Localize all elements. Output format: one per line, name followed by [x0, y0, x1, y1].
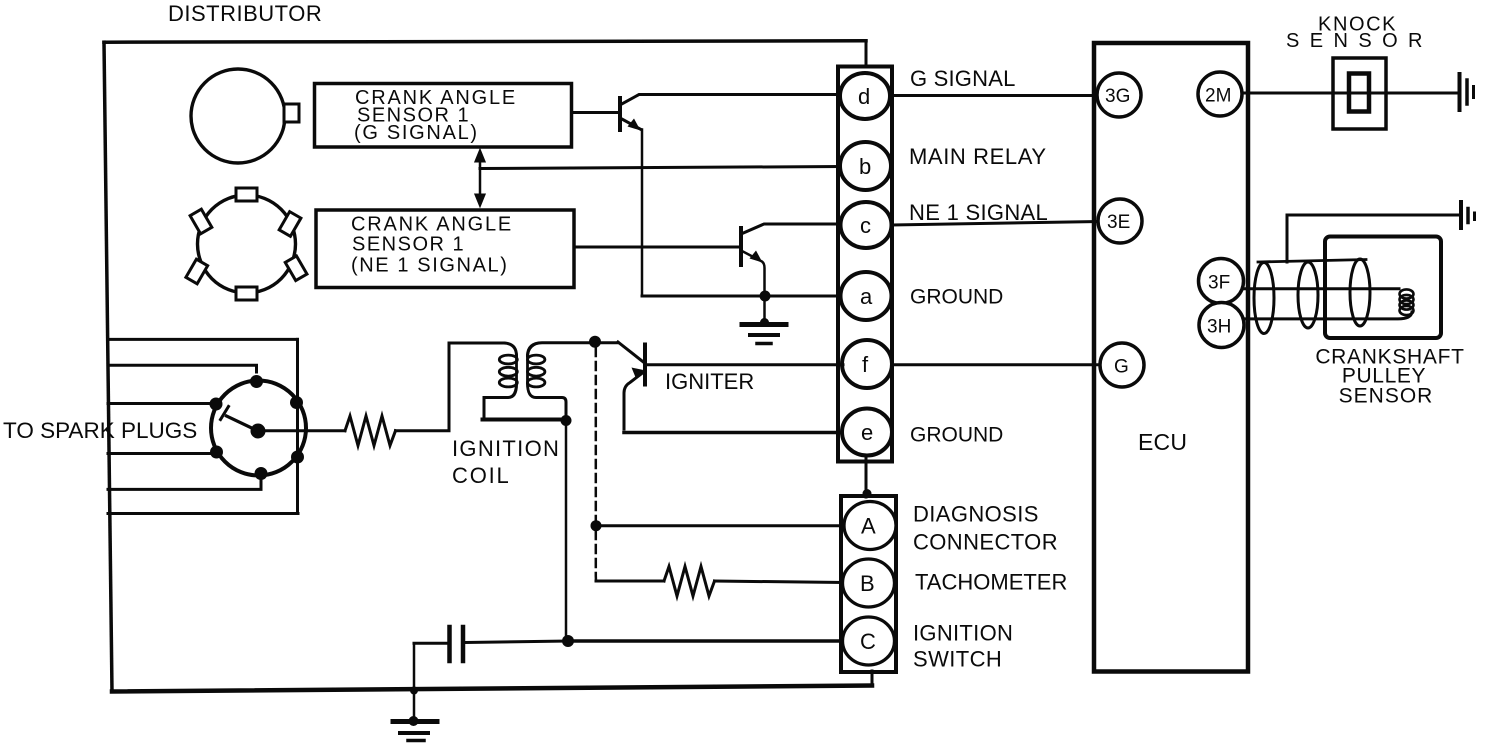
wire tachometer row left segment — [596, 580, 664, 583]
pin b — [840, 142, 891, 190]
ignition coil primary top lead — [504, 343, 517, 356]
pin d — [840, 73, 890, 119]
rotor arm tick — [221, 407, 229, 420]
svg-text:TACHOMETER: TACHOMETER — [915, 570, 1067, 595]
wire ignition coil junction down — [565, 421, 568, 642]
ground G3 (knock) — [1458, 74, 1462, 110]
ground G2 — [393, 719, 437, 724]
ECU pin G — [1100, 343, 1144, 387]
wire pin f to ECU G — [892, 363, 1100, 366]
ECU pin 3E — [1098, 199, 1142, 243]
svg-text:IGNITION: IGNITION — [452, 436, 560, 461]
ECU pin 2M — [1198, 72, 1242, 116]
wire top edge to connector d — [865, 41, 868, 67]
pin e — [842, 409, 892, 456]
svg-text:SWITCH: SWITCH — [913, 647, 1002, 672]
transistor Q2 base wire from NE sensor — [575, 246, 741, 249]
svg-text:CONNECTOR: CONNECTOR — [913, 530, 1058, 555]
wire ignition switch row to pin C — [568, 639, 843, 643]
pickup coil G tab — [284, 104, 299, 122]
wire resistor to pin B — [715, 581, 844, 583]
svg-text:DIAGNOSIS: DIAGNOSIS — [913, 502, 1039, 527]
wire Q1 emitter down — [641, 130, 644, 297]
wire pin d to ECU 3G — [892, 94, 1097, 97]
svg-text:(G SIGNAL): (G SIGNAL) — [354, 122, 479, 144]
svg-text:2M: 2M — [1205, 86, 1231, 107]
transistor Q1 emitter arrow — [628, 119, 641, 131]
svg-text:d: d — [858, 84, 870, 109]
ignition coil primary bottom lead — [484, 384, 517, 418]
svg-text:3G: 3G — [1105, 86, 1130, 107]
svg-text:G SIGNAL: G SIGNAL — [910, 66, 1016, 91]
cap contact dot upper-right — [290, 396, 303, 409]
ground G2 dot — [409, 716, 419, 726]
connector 2 box — [841, 496, 896, 672]
svg-text:A: A — [861, 514, 876, 539]
junction dot igniter base — [589, 336, 601, 348]
svg-text:SENSOR: SENSOR — [1286, 30, 1433, 52]
wire pin c to ECU 3E — [892, 222, 1098, 226]
ignition coil secondary bottom lead — [528, 384, 567, 421]
cap contact dot lower-left — [210, 446, 223, 459]
igniter transistor Q3 emitter — [624, 371, 645, 429]
pin C — [843, 617, 895, 665]
capacitor C1 plates — [447, 627, 452, 661]
spark plug wire 2 — [108, 365, 257, 372]
junction dot diagnosis row — [591, 520, 602, 531]
NE rotor tooth upper-left — [190, 209, 212, 234]
pin B — [843, 559, 895, 607]
svg-text:ECU: ECU — [1138, 429, 1187, 455]
cap contact dot lower-right — [291, 451, 304, 464]
spark plug wire 6 — [108, 512, 298, 515]
capacitor C1 right wire — [466, 641, 569, 643]
svg-text:GROUND: GROUND — [910, 424, 1003, 447]
pickup coil G circle — [191, 69, 285, 163]
ignition coil secondary winding — [526, 355, 529, 383]
svg-text:IGNITION: IGNITION — [913, 621, 1013, 646]
pin A — [844, 502, 896, 550]
igniter transistor Q3 emitter arrow — [632, 368, 644, 379]
transistor Q2 emitter arrow — [750, 251, 763, 263]
NE rotor tooth lower-right — [285, 256, 307, 281]
ground G1 dot — [760, 318, 769, 327]
cap contact dot upper-left — [210, 398, 223, 411]
ECU pin 3H — [1199, 303, 1244, 348]
pin c — [841, 202, 892, 248]
wire crank sensor shield to ground — [1287, 215, 1459, 262]
shield loop 3 — [1350, 259, 1370, 326]
NE rotor tooth bottom — [236, 287, 257, 300]
wire main relay row to pin b — [480, 167, 842, 169]
svg-text:c: c — [860, 213, 871, 238]
distributor enclosure top edge — [104, 41, 866, 42]
resistor R1 (rotor gap) — [345, 416, 396, 446]
sensor pickup coil — [1400, 289, 1414, 298]
NE rotor tooth top — [236, 188, 257, 201]
svg-text:CRANK ANGLE: CRANK ANGLE — [351, 214, 513, 236]
wire rotor to resistor — [264, 429, 345, 432]
wire igniter collector to pin f — [645, 363, 843, 366]
transistor Q1 base wire from G sensor — [574, 111, 620, 114]
svg-text:SENSOR 1: SENSOR 1 — [352, 234, 465, 256]
svg-text:a: a — [860, 284, 873, 309]
wire 2M to knock sensor — [1242, 92, 1458, 95]
svg-text:e: e — [861, 420, 873, 445]
wire resistor to ignition coil — [396, 343, 505, 431]
double-headed arrow between sensor boxes — [479, 158, 482, 198]
ECU box — [1094, 43, 1248, 672]
spark plug bus vertical — [296, 339, 299, 513]
NE signal rotor circle — [198, 195, 296, 293]
cap contact dot bottom — [255, 467, 268, 480]
transistor Q2 collector to pin c wire — [741, 224, 841, 234]
igniter transistor Q3 base bar — [643, 345, 647, 385]
spark plug wire 4 — [108, 452, 216, 455]
svg-text:DISTRIBUTOR: DISTRIBUTOR — [168, 1, 322, 26]
shielded cable tube top — [1258, 260, 1366, 263]
wire capacitor to ground — [413, 643, 416, 719]
transistor Q2 base bar — [739, 228, 743, 265]
shield loop 2 — [1298, 262, 1318, 328]
svg-text:b: b — [859, 154, 871, 179]
transistor Q1 collector to pin d wire — [620, 95, 842, 106]
svg-text:IGNITER: IGNITER — [665, 369, 754, 394]
resistor R2 (tachometer) — [664, 567, 715, 597]
svg-text:f: f — [862, 352, 869, 377]
crank angle sensor 1 (G) box — [315, 84, 572, 148]
svg-text:B: B — [860, 571, 875, 596]
svg-text:SENSOR: SENSOR — [1339, 385, 1434, 408]
svg-text:MAIN RELAY: MAIN RELAY — [909, 144, 1047, 169]
pin a — [841, 272, 892, 320]
capacitor C1 left wire — [414, 642, 446, 645]
wire pin e to connector 2 — [865, 455, 868, 497]
wire to ground G1 — [763, 296, 766, 322]
ground G4 (crank shield) — [1459, 202, 1463, 228]
svg-text:COIL: COIL — [452, 463, 511, 488]
wire diagnosis row to pin A — [596, 524, 844, 527]
svg-text:TO SPARK PLUGS: TO SPARK PLUGS — [3, 418, 197, 443]
ECU pin 3F — [1199, 259, 1244, 304]
transistor Q2 emitter — [741, 251, 765, 297]
distributor enclosure left edge — [104, 42, 112, 691]
spark plug wire 1 — [108, 338, 298, 341]
wire bottom edge to connector C — [871, 671, 874, 686]
junction dot ignition switch row — [562, 635, 574, 647]
connector 1 box — [838, 67, 892, 462]
knock sensor element — [1349, 74, 1369, 112]
junction dot at enclosure bottom — [410, 687, 418, 695]
svg-text:G: G — [1114, 357, 1129, 378]
pin f — [842, 340, 892, 388]
svg-text:3E: 3E — [1107, 212, 1130, 233]
ignition coil secondary top lead — [528, 343, 619, 356]
igniter transistor Q3 collector diagonal — [618, 342, 644, 363]
cap contact dot top — [250, 375, 263, 388]
svg-text:C: C — [860, 629, 876, 654]
shield loop 1 — [1254, 263, 1274, 334]
crank angle sensor 1 (NE) box — [316, 210, 574, 288]
svg-text:(NE 1 SIGNAL): (NE 1 SIGNAL) — [351, 255, 509, 277]
svg-text:GROUND: GROUND — [910, 286, 1003, 309]
wire ECU 3H to sensor coil — [1244, 312, 1412, 319]
ignition coil primary winding — [515, 355, 518, 383]
junction dot a row — [760, 291, 771, 302]
NE rotor tooth lower-left — [186, 259, 208, 284]
distributor enclosure bottom edge — [112, 686, 872, 692]
dashed wire from igniter base junction down — [595, 348, 598, 520]
junction dot coil bottom — [561, 415, 572, 426]
crankshaft pulley sensor box — [1325, 237, 1441, 339]
ECU pin 3G — [1097, 73, 1141, 117]
junction dot connector 2 top — [863, 489, 872, 498]
distributor cap circle — [211, 381, 306, 476]
spark plug wire 3 — [108, 402, 216, 405]
spark plug wire 5 — [108, 480, 261, 489]
NE rotor tooth upper-right — [279, 212, 301, 237]
wire ECU 3F to sensor coil — [1243, 287, 1399, 290]
rotor center dot — [251, 424, 266, 439]
wire igniter emitter to pin e — [624, 431, 842, 435]
transistor Q1 base bar — [618, 98, 622, 130]
wire ground row to pin a — [642, 295, 842, 298]
svg-text:3F: 3F — [1208, 273, 1230, 294]
knock sensor outer box — [1333, 58, 1386, 129]
rotor arm — [227, 416, 259, 431]
dashed wire to tachometer row — [595, 531, 598, 581]
transistor Q1 emitter — [620, 118, 641, 130]
ground G1 — [742, 322, 786, 327]
svg-text:3H: 3H — [1207, 317, 1231, 338]
